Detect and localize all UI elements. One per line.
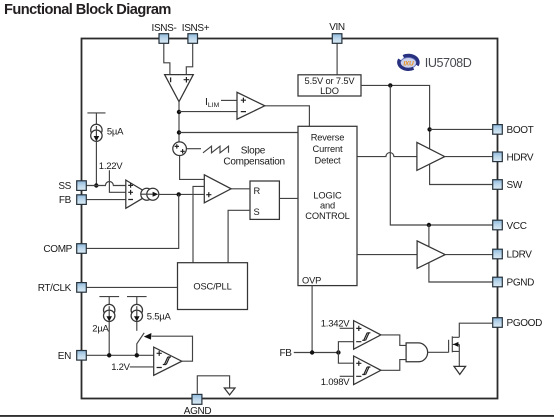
svg-text:LDO: LDO — [320, 86, 339, 96]
wire AND output to gate — [428, 351, 449, 353]
label ILIM — [205, 96, 237, 109]
pin PGND — [493, 277, 534, 288]
label 1.098V — [321, 377, 351, 388]
title — [4, 2, 171, 18]
summing node slope comp — [173, 142, 187, 156]
node OVP junction — [310, 350, 314, 354]
svg-text:OSC/PLL: OSC/PLL — [193, 281, 231, 291]
svg-text:HDRV: HDRV — [507, 153, 534, 164]
node VCC junction — [427, 223, 431, 227]
pin VIN — [329, 22, 345, 44]
wire lower comparator output — [381, 360, 406, 371]
wire 5.5uA to switch — [136, 322, 138, 331]
comparator EN — [154, 347, 182, 375]
svg-text:PGND: PGND — [507, 278, 535, 289]
node LDO output junction — [388, 83, 392, 87]
wire FB net — [294, 352, 339, 354]
svg-text:IU5708D: IU5708D — [425, 56, 472, 70]
wire OVP — [311, 286, 313, 353]
wire logic to low driver — [357, 254, 417, 256]
pin ISNS- — [152, 23, 177, 44]
logo IU5708D — [399, 55, 472, 69]
label 1.2V — [111, 362, 130, 373]
svg-text:BOOT: BOOT — [507, 125, 534, 136]
pin BOOT — [493, 125, 534, 137]
current source 5uA — [87, 113, 124, 141]
sawtooth slope symbol — [203, 146, 229, 153]
pin RT/CLK — [38, 283, 87, 294]
svg-text:Slope: Slope — [241, 146, 266, 157]
current source 2uA — [92, 297, 119, 335]
wire to ILIM comparator minus — [179, 111, 237, 113]
label FB net — [280, 348, 293, 359]
wire SS to error amp (hop) — [86, 182, 126, 186]
wire FB to upper comparator — [338, 342, 353, 353]
svg-text:Reverse: Reverse — [311, 133, 345, 143]
buffer high-side driver — [417, 142, 445, 170]
wire SW rail — [430, 164, 493, 184]
node EN/2uA junction — [107, 353, 111, 357]
wire LDO output rail — [361, 85, 430, 149]
pin VCC — [493, 220, 527, 232]
IC boundary — [82, 39, 498, 399]
block LDO — [298, 75, 361, 96]
wire VCC rail — [390, 85, 492, 225]
pin SS — [58, 181, 86, 192]
block OSC/PLL — [178, 263, 248, 310]
wire ISNS+ to diff amp — [186, 43, 192, 74]
wire VCC to low driver — [428, 225, 430, 247]
node EN/switch junction — [135, 353, 139, 357]
pin AGND — [184, 394, 212, 417]
comparator OVP 1.342V — [354, 321, 381, 350]
comparator UVP 1.098V — [354, 356, 381, 385]
wire 1.22V reference — [109, 170, 125, 192]
wire 1.342V reference — [340, 327, 354, 329]
svg-text:1.2V: 1.2V — [111, 362, 130, 373]
wire COMP — [86, 194, 178, 248]
buffer low-side driver — [417, 241, 445, 269]
svg-text:FB: FB — [280, 348, 293, 359]
svg-text:LOGIC: LOGIC — [313, 190, 342, 200]
wire to BOOT pin — [430, 128, 493, 130]
wire PGND rail — [429, 262, 493, 282]
wire HDRV output — [445, 156, 493, 158]
svg-text:5.5µA: 5.5µA — [147, 312, 172, 323]
svg-text:FB: FB — [59, 195, 72, 206]
pin COMP — [43, 244, 86, 255]
svg-text:ILIM: ILIM — [205, 96, 220, 109]
pin EN — [58, 351, 87, 363]
wire R input — [231, 188, 250, 190]
comparator PWM — [204, 175, 231, 203]
wire 1.2V reference — [130, 366, 154, 368]
node BOOT junction — [427, 127, 431, 131]
svg-text:AGND: AGND — [184, 406, 212, 417]
page bottom rule — [0, 415, 554, 417]
latch RS — [250, 181, 279, 219]
wire gm output to PWM comparator — [159, 193, 205, 195]
svg-text:SS: SS — [58, 181, 71, 192]
svg-text:COMP: COMP — [43, 244, 72, 255]
node gm output — [177, 192, 181, 196]
wire OSC to PWM comparator — [193, 186, 204, 262]
svg-text:Detect: Detect — [315, 156, 342, 166]
svg-text:PGOOD: PGOOD — [507, 318, 543, 329]
svg-text:ISNS-: ISNS- — [152, 23, 177, 34]
svg-text:IXU: IXU — [403, 60, 414, 67]
wire latch output — [279, 197, 298, 199]
svg-text:VCC: VCC — [507, 221, 527, 232]
wire logic to high driver (hop) — [357, 153, 417, 157]
error amp gm — [126, 180, 159, 208]
pin ISNS+ — [182, 23, 210, 44]
node sense/ILIM junction — [177, 110, 181, 114]
block logic and control — [298, 126, 357, 285]
svg-text:VIN: VIN — [329, 22, 345, 33]
pin LDRV — [493, 249, 533, 260]
ground AGND symbol — [224, 388, 235, 395]
svg-text:and: and — [320, 200, 335, 210]
wire slope to PWM comparator — [180, 156, 205, 180]
svg-text:S: S — [254, 207, 260, 217]
switch enable — [137, 333, 152, 344]
pin PGOOD — [493, 318, 542, 330]
label 1.342V — [321, 318, 351, 329]
wire summing input — [186, 148, 201, 150]
wire ILIM output — [265, 106, 310, 127]
comparator ILIM — [237, 92, 265, 119]
node SS junction — [94, 183, 98, 187]
wire AGND bracket — [197, 376, 229, 394]
svg-text:OVP: OVP — [302, 275, 321, 285]
node sense/RCD junction — [177, 130, 181, 134]
wire switch to EN line — [136, 344, 138, 356]
svg-text:Current: Current — [313, 144, 344, 154]
wire RT/CLK — [86, 286, 177, 288]
wire 1.098V reference — [340, 375, 354, 377]
wire sense node vertical — [178, 102, 180, 142]
svg-text:LDRV: LDRV — [507, 250, 533, 261]
wire mosfet drain to PGOOD — [459, 323, 492, 337]
transistor PGOOD mosfet — [449, 336, 460, 352]
wire FB to lower comparator — [338, 353, 353, 364]
gate AND — [406, 343, 428, 362]
wire mosfet source to ground — [458, 344, 460, 366]
label 1.22V — [99, 161, 123, 172]
wire 2uA to EN — [108, 322, 110, 356]
wire S input from OSC — [228, 210, 250, 262]
svg-text:2µA: 2µA — [92, 323, 109, 334]
svg-text:EN: EN — [58, 351, 71, 362]
svg-text:1.098V: 1.098V — [321, 377, 351, 388]
svg-text:Functional Block Diagram: Functional Block Diagram — [4, 2, 171, 18]
pin FB — [59, 195, 86, 206]
current source 5.5uA — [127, 297, 171, 323]
svg-text:R: R — [254, 186, 261, 196]
svg-text:5µA: 5µA — [107, 126, 124, 137]
svg-text:RT/CLK: RT/CLK — [38, 283, 72, 294]
wire EN — [86, 354, 153, 356]
svg-text:Compensation: Compensation — [223, 156, 284, 167]
wire EN comparator feedback — [152, 336, 193, 361]
wire 5uA to SS — [95, 141, 97, 185]
svg-text:1.22V: 1.22V — [99, 161, 123, 172]
svg-text:ISNS+: ISNS+ — [182, 23, 210, 34]
svg-text:SW: SW — [507, 180, 523, 191]
svg-text:CONTROL: CONTROL — [305, 211, 349, 221]
label slope compensation — [223, 146, 284, 168]
pin HDRV — [493, 152, 534, 164]
wire FB to error amp — [86, 199, 126, 201]
current sense diff amp — [165, 75, 194, 102]
pin SW — [493, 180, 523, 191]
wire to reverse current detect — [179, 132, 298, 134]
wire upper comparator output — [381, 335, 406, 346]
wire ISNS- to diff amp — [164, 43, 170, 74]
wire VIN — [336, 43, 338, 75]
wire LDRV output — [445, 254, 493, 256]
node FB branch junction — [336, 350, 340, 354]
svg-text:5.5V or 7.5V: 5.5V or 7.5V — [305, 76, 356, 86]
ground PGOOD symbol — [454, 366, 466, 374]
